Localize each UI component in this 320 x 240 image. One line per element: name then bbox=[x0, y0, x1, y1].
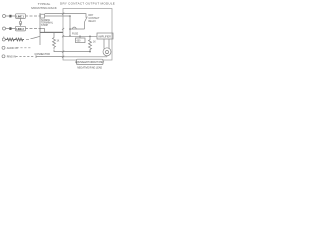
svg-text:1K: 1K bbox=[57, 40, 60, 42]
telephone set box row2 bbox=[16, 26, 26, 31]
svg-text:DRY CONTACT OUTPUT MODULE: DRY CONTACT OUTPUT MODULE bbox=[60, 1, 115, 5]
relay contact K1 bbox=[80, 14, 87, 29]
svg-text:AUDIO IN: AUDIO IN bbox=[7, 47, 18, 50]
svg-text:NEGATIVE RING LEAD: NEGATIVE RING LEAD bbox=[77, 66, 102, 69]
wire contact bottom to junction bbox=[70, 28, 85, 30]
node: TYPICAL MOUNTING RACK title bbox=[31, 2, 57, 10]
amplifier U1 box bbox=[97, 33, 113, 39]
mounting rack bus bbox=[39, 13, 41, 45]
wire amplifier right output to speaker bbox=[108, 39, 110, 49]
node: NEGATIVE RING LEAD label bbox=[77, 66, 102, 69]
svg-text:DRY: DRY bbox=[89, 15, 94, 17]
wire y16 into module bbox=[45, 15, 70, 17]
wire rack lower to module bbox=[45, 31, 63, 33]
dry contact output module enclosure box bbox=[63, 9, 112, 61]
svg-text:STRIP: STRIP bbox=[41, 24, 48, 27]
wire y36 to amplifier bbox=[63, 35, 97, 37]
svg-text:LINE 2: LINE 2 bbox=[16, 27, 24, 31]
svg-text:AMPLIFIER: AMPLIFIER bbox=[98, 35, 111, 38]
wire amplifier left output down bbox=[103, 39, 105, 49]
node: CONNECTOR label bbox=[35, 53, 51, 56]
wire row1 to rack bbox=[6, 15, 41, 17]
telephone set box row1 bbox=[16, 14, 26, 19]
node: DRY CONTACT RELAY label bbox=[89, 15, 101, 23]
wire resistor R2 bottom to module bbox=[54, 50, 63, 52]
terminal J2 circle row2 bbox=[3, 27, 6, 30]
node: SCREW TERMINALS label bbox=[41, 19, 54, 27]
wire rack to contact top bbox=[45, 13, 80, 15]
node: FUSE label bbox=[72, 34, 79, 36]
svg-text:FUSE: FUSE bbox=[72, 34, 79, 36]
tick marks at module edge bbox=[62, 51, 64, 58]
terminal J4 circle row4 bbox=[2, 46, 5, 49]
tick at module edge bbox=[62, 13, 64, 38]
wire vertical x70 bbox=[69, 16, 71, 36]
wire y52 bus inside module bbox=[63, 51, 90, 53]
speaker SP1 bbox=[103, 48, 111, 56]
svg-text:CONTACT: CONTACT bbox=[89, 17, 101, 20]
coil L1 box bbox=[79, 36, 81, 38]
wire thick rack top bbox=[40, 31, 63, 33]
terminal J5 circle row5 bbox=[2, 55, 5, 58]
svg-text:RING IN: RING IN bbox=[7, 55, 16, 58]
wire row3 to rack bus bbox=[26, 36, 40, 39]
wire row4 dashed bbox=[17, 47, 32, 49]
resistor R1 horizontal zigzag row3 bbox=[5, 38, 24, 41]
svg-text:1K: 1K bbox=[93, 41, 96, 43]
svg-text:EQUIVALENT CIRCUIT ONLY: EQUIVALENT CIRCUIT ONLY bbox=[75, 61, 104, 64]
terminal J3 circle row3 bbox=[2, 38, 5, 41]
capacitor C2b row2 bbox=[9, 27, 11, 30]
capacitor C1 row1 bbox=[9, 15, 11, 18]
svg-text:LINE 1: LINE 1 bbox=[16, 15, 24, 19]
varistor RV1 bump bbox=[72, 27, 76, 29]
wire row5 dashed then solid to module bbox=[16, 56, 35, 58]
wire row2 to rack bbox=[6, 28, 41, 30]
svg-text:RELAY: RELAY bbox=[89, 20, 97, 23]
wire y57 bottom bus bbox=[63, 56, 107, 58]
rack terminal block TB2 bbox=[40, 29, 45, 33]
junction node dots bbox=[69, 28, 71, 30]
svg-text:MOUNTING RACK: MOUNTING RACK bbox=[31, 6, 57, 10]
resistor R2 vertical in rack bbox=[53, 33, 56, 49]
node: EQUIVALENT CIRCUIT ONLY label bbox=[77, 59, 104, 64]
resistor R3 vertical in module bbox=[89, 36, 92, 52]
capacitor C2 between rows bbox=[20, 18, 22, 21]
svg-text:CONNECTOR: CONNECTOR bbox=[35, 53, 51, 56]
wire speaker bottom bbox=[106, 56, 108, 57]
rack terminal block TB1 bbox=[40, 14, 45, 18]
terminal J1 circle row1 bbox=[3, 15, 6, 18]
node: DRY CONTACT OUTPUT MODULE title bbox=[60, 1, 115, 5]
